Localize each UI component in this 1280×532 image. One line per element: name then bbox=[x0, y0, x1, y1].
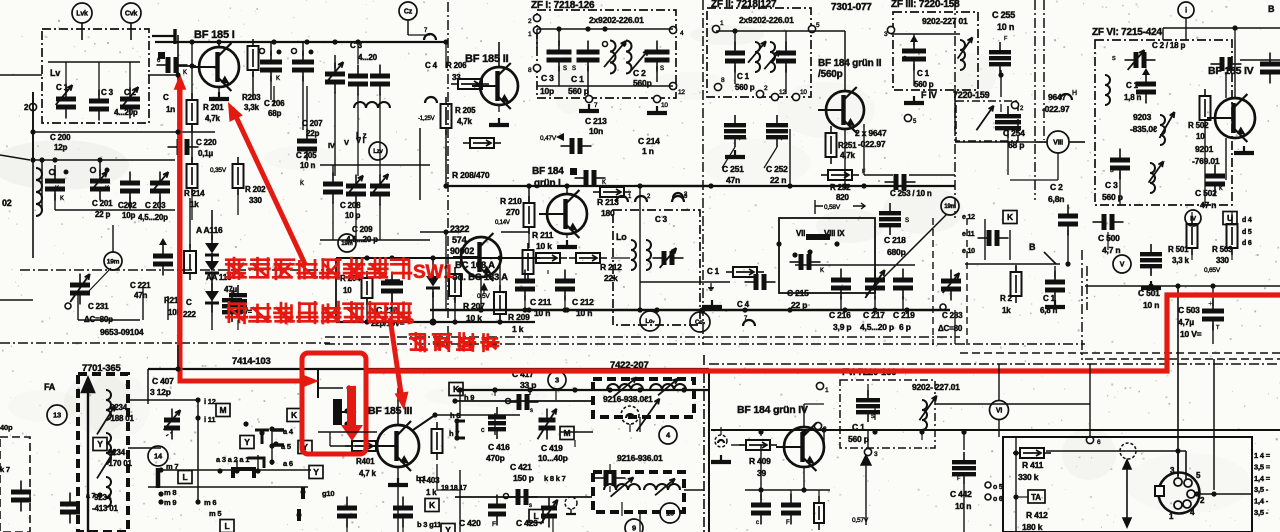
svg-text:R 210: R 210 bbox=[500, 196, 522, 206]
svg-text:C 209: C 209 bbox=[352, 225, 373, 234]
svg-text:C 4: C 4 bbox=[737, 300, 750, 309]
svg-text:9653-09104: 9653-09104 bbox=[100, 327, 144, 337]
svg-text:d 4: d 4 bbox=[1242, 217, 1252, 224]
svg-text:330: 330 bbox=[249, 196, 262, 205]
svg-text:-188 01: -188 01 bbox=[108, 414, 134, 423]
svg-text:Lzv: Lzv bbox=[373, 149, 383, 155]
svg-text:C 1: C 1 bbox=[1043, 294, 1056, 303]
svg-text:-835.0ℓ: -835.0ℓ bbox=[1130, 124, 1157, 134]
svg-text:4: 4 bbox=[680, 30, 684, 37]
svg-text:K: K bbox=[291, 410, 298, 420]
svg-text:c: c bbox=[756, 520, 759, 526]
svg-text:i 11: i 11 bbox=[204, 415, 215, 424]
svg-text:3,3 k: 3,3 k bbox=[1172, 256, 1190, 265]
svg-text:C 214: C 214 bbox=[638, 136, 660, 146]
svg-text:VI: VI bbox=[996, 408, 1002, 415]
svg-text:R 409: R 409 bbox=[749, 456, 771, 466]
svg-text:47n: 47n bbox=[726, 175, 740, 185]
svg-text:R 503: R 503 bbox=[1212, 245, 1233, 254]
svg-text:R 501: R 501 bbox=[1168, 245, 1189, 254]
svg-text:10 n: 10 n bbox=[300, 161, 316, 170]
svg-text:K: K bbox=[602, 180, 606, 186]
svg-text:10: 10 bbox=[661, 102, 668, 109]
svg-text:330: 330 bbox=[1216, 256, 1229, 265]
svg-text:9201: 9201 bbox=[1195, 144, 1214, 154]
svg-text:1k: 1k bbox=[1002, 306, 1011, 315]
svg-text:IV: IV bbox=[328, 141, 335, 150]
svg-text:12p: 12p bbox=[54, 143, 67, 152]
svg-text:a 3 a 2 a 1: a 3 a 2 a 1 bbox=[216, 455, 249, 464]
svg-text:5: 5 bbox=[816, 22, 820, 29]
svg-text:o 5: o 5 bbox=[993, 484, 1003, 491]
svg-text:C 1: C 1 bbox=[737, 72, 750, 81]
svg-text:1n: 1n bbox=[166, 105, 175, 114]
svg-text:M: M bbox=[564, 428, 571, 438]
svg-text:0,5V: 0,5V bbox=[477, 293, 490, 300]
svg-text:270: 270 bbox=[506, 207, 520, 217]
svg-text:02: 02 bbox=[2, 198, 12, 208]
svg-text:C 218: C 218 bbox=[884, 235, 906, 245]
svg-text:10...40p: 10...40p bbox=[538, 453, 568, 463]
svg-text:R401: R401 bbox=[356, 457, 375, 466]
svg-text:10 n: 10 n bbox=[1143, 300, 1159, 310]
svg-text:C 502: C 502 bbox=[1195, 188, 1217, 198]
svg-text:C 203: C 203 bbox=[145, 201, 166, 210]
svg-text:F IV: F IV bbox=[921, 90, 937, 100]
svg-text:C 212: C 212 bbox=[572, 297, 594, 307]
svg-text:VIII: VIII bbox=[1053, 140, 1063, 147]
svg-text:22 p: 22 p bbox=[95, 210, 111, 219]
svg-text:V: V bbox=[344, 138, 349, 147]
svg-text:C 211: C 211 bbox=[530, 297, 552, 307]
svg-text:560 p: 560 p bbox=[914, 80, 934, 89]
svg-text:Co₂: Co₂ bbox=[695, 320, 706, 326]
svg-text:s: s bbox=[530, 408, 533, 414]
svg-text:R 2: R 2 bbox=[1000, 294, 1013, 303]
svg-text:6 p: 6 p bbox=[899, 322, 911, 332]
svg-text:o 6: o 6 bbox=[993, 496, 1003, 503]
svg-text:i: i bbox=[1185, 8, 1187, 15]
svg-text:2 x 9647: 2 x 9647 bbox=[855, 128, 887, 138]
svg-text:7220-159: 7220-159 bbox=[953, 90, 990, 100]
svg-text:S: S bbox=[563, 66, 567, 72]
svg-text:BF 185 I: BF 185 I bbox=[194, 29, 235, 41]
svg-text:Y: Y bbox=[445, 525, 451, 532]
svg-text:0,58V: 0,58V bbox=[824, 204, 841, 211]
svg-text:K: K bbox=[1219, 186, 1223, 192]
svg-text:9202- 227.01: 9202- 227.01 bbox=[912, 382, 960, 392]
svg-text:d 6: d 6 bbox=[1242, 240, 1252, 247]
svg-text:0,47V: 0,47V bbox=[540, 135, 557, 142]
svg-text:R 208/470: R 208/470 bbox=[452, 170, 490, 180]
svg-text:C 219: C 219 bbox=[893, 310, 915, 320]
svg-text:C 255: C 255 bbox=[992, 10, 1015, 20]
svg-text:e 10: e 10 bbox=[962, 248, 975, 255]
svg-text:680p: 680p bbox=[887, 247, 906, 257]
svg-text:/560p: /560p bbox=[818, 69, 843, 80]
svg-text:Y: Y bbox=[313, 467, 319, 477]
svg-text:C 213: C 213 bbox=[585, 116, 607, 126]
svg-text:K: K bbox=[183, 70, 187, 76]
svg-text:C 221: C 221 bbox=[130, 281, 151, 290]
svg-text:10 p: 10 p bbox=[345, 211, 361, 220]
svg-text:M: M bbox=[220, 405, 227, 415]
svg-text:a 4: a 4 bbox=[283, 427, 294, 436]
svg-text:2: 2 bbox=[528, 18, 532, 25]
svg-text:C 208: C 208 bbox=[340, 201, 361, 210]
svg-text:R 411: R 411 bbox=[1022, 460, 1044, 470]
svg-text:560 p: 560 p bbox=[848, 434, 869, 444]
svg-text:R 412: R 412 bbox=[1026, 510, 1048, 520]
svg-text:Lv: Lv bbox=[50, 68, 60, 78]
svg-text:BF 184 grün II: BF 184 grün II bbox=[818, 58, 882, 69]
svg-text:10n: 10n bbox=[589, 126, 603, 136]
svg-text:C 416: C 416 bbox=[488, 442, 510, 452]
svg-text:68p: 68p bbox=[268, 109, 281, 118]
svg-text:FA: FA bbox=[44, 382, 56, 392]
svg-text:9234: 9234 bbox=[94, 493, 112, 502]
svg-text:22 n: 22 n bbox=[770, 175, 786, 185]
svg-text:1,4 =: 1,4 = bbox=[1254, 474, 1271, 483]
svg-text:Cz: Cz bbox=[404, 9, 413, 16]
svg-text:C 216: C 216 bbox=[829, 310, 851, 320]
svg-text:ΔC=80: ΔC=80 bbox=[938, 324, 963, 333]
svg-text:C 251: C 251 bbox=[722, 164, 744, 174]
svg-text:C 2: C 2 bbox=[633, 68, 646, 78]
svg-text:-413 01: -413 01 bbox=[92, 504, 118, 513]
svg-text:1: 1 bbox=[720, 20, 724, 27]
svg-text:1 n: 1 n bbox=[642, 146, 654, 156]
svg-text:10 n: 10 n bbox=[955, 501, 971, 511]
svg-text:C 500: C 500 bbox=[1098, 233, 1120, 243]
svg-text:m 5: m 5 bbox=[209, 509, 221, 518]
svg-text:C 503: C 503 bbox=[1178, 305, 1200, 315]
svg-text:ZF III: 7220-158: ZF III: 7220-158 bbox=[891, 0, 960, 10]
svg-text:0,1µ: 0,1µ bbox=[198, 149, 214, 158]
svg-text:Y: Y bbox=[244, 437, 250, 447]
svg-text:F: F bbox=[492, 521, 496, 528]
svg-text:3: 3 bbox=[874, 451, 878, 458]
svg-text:10 k: 10 k bbox=[536, 241, 552, 251]
svg-text:b 3 g11: b 3 g11 bbox=[417, 520, 441, 529]
svg-text:C 220: C 220 bbox=[196, 138, 217, 147]
svg-text:K: K bbox=[276, 76, 280, 82]
svg-text:222: 222 bbox=[183, 310, 196, 319]
svg-text:C 254: C 254 bbox=[1003, 128, 1025, 138]
svg-text:BF 184 grün IV: BF 184 grün IV bbox=[737, 404, 808, 416]
svg-text:330 k: 330 k bbox=[1018, 472, 1039, 482]
svg-text:C 200: C 200 bbox=[50, 133, 71, 142]
svg-text:L: L bbox=[183, 472, 188, 482]
svg-text:BF 184: BF 184 bbox=[532, 166, 564, 177]
svg-text:150 p: 150 p bbox=[513, 473, 534, 483]
svg-text:40p: 40p bbox=[0, 423, 13, 432]
svg-text:560 p: 560 p bbox=[568, 86, 589, 96]
svg-text:47 n: 47 n bbox=[1200, 200, 1216, 210]
svg-text:10: 10 bbox=[1196, 132, 1205, 141]
svg-text:2x9202-226.01: 2x9202-226.01 bbox=[739, 15, 794, 25]
svg-text:m 8: m 8 bbox=[164, 488, 176, 497]
svg-text:22 p: 22 p bbox=[791, 300, 807, 310]
svg-text:V I: V I bbox=[356, 136, 365, 145]
svg-text:7414-103: 7414-103 bbox=[232, 356, 271, 367]
svg-text:B: B bbox=[1029, 242, 1036, 252]
svg-text:R 212: R 212 bbox=[600, 262, 622, 272]
svg-text:e 12: e 12 bbox=[962, 214, 975, 221]
svg-text:0,14V: 0,14V bbox=[495, 220, 510, 226]
svg-text:IV: IV bbox=[1190, 215, 1197, 222]
svg-text:3,5 -: 3,5 - bbox=[1254, 508, 1269, 517]
svg-text:H: H bbox=[1072, 90, 1077, 97]
svg-text:R 202: R 202 bbox=[245, 185, 266, 194]
svg-text:9: 9 bbox=[632, 524, 636, 532]
svg-text:Cvk: Cvk bbox=[125, 11, 138, 18]
svg-text:2: 2 bbox=[764, 85, 768, 92]
svg-text:C 1: C 1 bbox=[571, 74, 584, 84]
svg-text:K: K bbox=[300, 181, 304, 187]
svg-text:C: C bbox=[186, 298, 192, 307]
svg-text:。: 。 bbox=[408, 309, 423, 326]
svg-text:C: C bbox=[163, 93, 169, 102]
svg-text:C 2 / 18 p: C 2 / 18 p bbox=[1152, 41, 1185, 50]
svg-text:R 502: R 502 bbox=[1188, 121, 1209, 130]
svg-text:C 442: C 442 bbox=[950, 489, 972, 499]
svg-text:ZF I: 7218-126: ZF I: 7218-126 bbox=[531, 0, 595, 11]
svg-text:22k: 22k bbox=[604, 273, 618, 283]
svg-text:R 209: R 209 bbox=[508, 312, 530, 322]
svg-text:S: S bbox=[903, 56, 907, 62]
svg-text:820: 820 bbox=[836, 193, 849, 202]
svg-text:0,35V: 0,35V bbox=[210, 167, 227, 174]
svg-text:-170 01: -170 01 bbox=[106, 459, 132, 468]
svg-text:K: K bbox=[60, 196, 64, 202]
svg-text:K: K bbox=[820, 268, 824, 274]
svg-text:C 3: C 3 bbox=[101, 88, 114, 97]
svg-text:e 11: e 11 bbox=[962, 231, 975, 238]
svg-text:BF 185 II: BF 185 II bbox=[465, 53, 509, 65]
svg-text:8: 8 bbox=[528, 67, 532, 74]
svg-text:S: S bbox=[572, 66, 576, 72]
svg-text:47µ: 47µ bbox=[224, 285, 237, 294]
svg-text:19 18 17: 19 18 17 bbox=[441, 485, 467, 492]
svg-text:9203: 9203 bbox=[1133, 112, 1152, 122]
svg-text:47n: 47n bbox=[134, 291, 147, 300]
svg-text:K: K bbox=[105, 186, 109, 192]
svg-text:SW1: SW1 bbox=[413, 262, 454, 283]
svg-text:a 6: a 6 bbox=[283, 459, 293, 468]
svg-text:ZF VI: 7215-424: ZF VI: 7215-424 bbox=[1092, 27, 1162, 38]
svg-text:R203: R203 bbox=[242, 93, 261, 102]
svg-text:3,3k: 3,3k bbox=[244, 103, 260, 112]
svg-text:4,5...20p: 4,5...20p bbox=[138, 213, 168, 222]
svg-text:10p: 10p bbox=[122, 211, 135, 220]
svg-text:S: S bbox=[1110, 168, 1114, 174]
svg-text:C 231: C 231 bbox=[88, 302, 109, 311]
svg-text:C 3: C 3 bbox=[1105, 180, 1118, 190]
svg-text:m 6: m 6 bbox=[204, 498, 216, 507]
svg-text:B: B bbox=[1268, 4, 1275, 14]
svg-text:Lvk: Lvk bbox=[76, 11, 88, 18]
svg-text:19m: 19m bbox=[944, 204, 955, 210]
svg-text:C 407: C 407 bbox=[152, 376, 174, 386]
svg-text:13: 13 bbox=[53, 411, 61, 420]
svg-text:R251: R251 bbox=[838, 141, 857, 150]
svg-text:4,7k: 4,7k bbox=[840, 151, 856, 160]
svg-text:R 206: R 206 bbox=[446, 61, 467, 70]
svg-text:m 9: m 9 bbox=[164, 498, 176, 507]
svg-text:8: 8 bbox=[721, 77, 725, 84]
svg-text:d 5: d 5 bbox=[1242, 229, 1252, 236]
svg-text:⏚: ⏚ bbox=[707, 283, 715, 292]
svg-text:6: 6 bbox=[1097, 439, 1101, 446]
svg-text:22p: 22p bbox=[306, 129, 319, 138]
svg-text:4,7 n: 4,7 n bbox=[1102, 245, 1120, 255]
svg-text:10p: 10p bbox=[540, 86, 554, 96]
svg-text:R 252: R 252 bbox=[830, 183, 851, 192]
svg-text:9647: 9647 bbox=[1048, 92, 1067, 102]
svg-text:3,9 p: 3,9 p bbox=[833, 322, 851, 332]
svg-text:C 419: C 419 bbox=[541, 443, 563, 453]
svg-text:3 12p: 3 12p bbox=[150, 387, 171, 397]
svg-text:h 8: h 8 bbox=[450, 411, 460, 420]
svg-text:1 k: 1 k bbox=[512, 324, 524, 334]
svg-text:Lo₇: Lo₇ bbox=[645, 319, 655, 325]
svg-text:C 233: C 233 bbox=[942, 311, 963, 320]
svg-text:180 k: 180 k bbox=[1022, 522, 1043, 532]
svg-text:10: 10 bbox=[800, 89, 807, 96]
svg-text:BF 185 III: BF 185 III bbox=[368, 405, 412, 417]
svg-text:-022.97: -022.97 bbox=[858, 139, 886, 149]
svg-text:-1,25V: -1,25V bbox=[418, 116, 435, 122]
svg-text:3: 3 bbox=[555, 376, 559, 385]
svg-text:560 p: 560 p bbox=[735, 83, 755, 92]
svg-text:V: V bbox=[1120, 262, 1125, 269]
svg-text:1,4 -: 1,4 - bbox=[1254, 497, 1269, 506]
svg-text:A A116: A A116 bbox=[196, 225, 223, 235]
svg-text:C 3: C 3 bbox=[655, 215, 668, 224]
svg-text:K: K bbox=[1007, 212, 1014, 222]
svg-text:3: 3 bbox=[884, 31, 888, 38]
svg-text:k 8 k 7: k 8 k 7 bbox=[544, 474, 566, 483]
svg-text:4,7µ: 4,7µ bbox=[1178, 317, 1194, 327]
svg-text:ZF II: 7218|127: ZF II: 7218|127 bbox=[711, 0, 777, 10]
svg-text:C 423: C 423 bbox=[516, 518, 538, 528]
svg-text:R 211: R 211 bbox=[532, 230, 554, 240]
svg-text:S: S bbox=[660, 66, 664, 72]
svg-text:k 7: k 7 bbox=[0, 465, 10, 474]
svg-text:1 k: 1 k bbox=[426, 488, 437, 497]
svg-text:12: 12 bbox=[678, 89, 685, 96]
svg-text:S: S bbox=[905, 218, 909, 224]
svg-text:19m: 19m bbox=[107, 258, 120, 265]
svg-text:10 V=: 10 V= bbox=[1180, 329, 1202, 339]
svg-text:10 n: 10 n bbox=[997, 22, 1014, 32]
svg-text:+: + bbox=[1208, 299, 1213, 308]
svg-text:VII: VII bbox=[796, 229, 805, 238]
svg-text:TA: TA bbox=[1031, 493, 1041, 502]
svg-text:9202-227 01: 9202-227 01 bbox=[922, 16, 968, 26]
svg-text:1 4 =: 1 4 = bbox=[1254, 451, 1271, 460]
svg-text:6,8n: 6,8n bbox=[1048, 194, 1064, 204]
svg-text:grün I: grün I bbox=[534, 178, 561, 189]
svg-text:C 252: C 252 bbox=[766, 164, 788, 174]
svg-text:14: 14 bbox=[154, 452, 163, 461]
svg-text:10: 10 bbox=[666, 509, 674, 518]
svg-text:S: S bbox=[1112, 56, 1116, 62]
svg-text:39: 39 bbox=[757, 468, 767, 478]
svg-text:C 4: C 4 bbox=[425, 61, 438, 70]
svg-text:7301-077: 7301-077 bbox=[831, 2, 872, 13]
svg-text:R 201: R 201 bbox=[203, 103, 224, 112]
svg-text:4...20: 4...20 bbox=[358, 53, 378, 62]
svg-text:Lo: Lo bbox=[616, 232, 627, 242]
svg-text:574: 574 bbox=[452, 235, 467, 245]
svg-text:4,5...20 p: 4,5...20 p bbox=[860, 322, 894, 332]
svg-text:i 12: i 12 bbox=[204, 397, 216, 406]
svg-text:1: 1 bbox=[528, 31, 532, 38]
svg-text:C 1: C 1 bbox=[917, 69, 930, 78]
svg-text:R 205: R 205 bbox=[455, 106, 476, 115]
svg-text:a 7: a 7 bbox=[86, 493, 95, 500]
svg-text:9216-936.01: 9216-936.01 bbox=[617, 453, 663, 463]
svg-text:F: F bbox=[786, 520, 790, 526]
svg-text:1: 1 bbox=[825, 387, 829, 394]
svg-text:C 2: C 2 bbox=[1050, 182, 1063, 192]
svg-text:s: s bbox=[529, 503, 532, 509]
svg-text:C 1: C 1 bbox=[707, 267, 720, 276]
svg-text:R 214: R 214 bbox=[184, 189, 205, 198]
svg-text:C 207: C 207 bbox=[302, 119, 323, 128]
svg-text:C 3: C 3 bbox=[541, 73, 554, 83]
svg-text:K: K bbox=[429, 500, 436, 510]
svg-text:0,65V: 0,65V bbox=[1204, 267, 1221, 274]
svg-text:7: 7 bbox=[594, 102, 598, 109]
svg-text:33: 33 bbox=[452, 73, 461, 82]
svg-text:7701-365: 7701-365 bbox=[82, 363, 121, 374]
svg-text:19m: 19m bbox=[341, 241, 352, 247]
svg-text:g10: g10 bbox=[322, 489, 334, 498]
svg-text:3,5 -: 3,5 - bbox=[1254, 485, 1269, 494]
svg-text:K: K bbox=[55, 186, 59, 192]
svg-text:C 253 / 10 n: C 253 / 10 n bbox=[890, 189, 932, 198]
svg-text:2x9202-226.01: 2x9202-226.01 bbox=[589, 15, 644, 25]
svg-text:C 420: C 420 bbox=[459, 518, 481, 528]
svg-text:4,7k: 4,7k bbox=[457, 117, 473, 126]
svg-text:C 421: C 421 bbox=[510, 462, 532, 472]
svg-text:C202: C202 bbox=[118, 201, 137, 210]
svg-text:4,7k: 4,7k bbox=[205, 114, 221, 123]
svg-text:10: 10 bbox=[343, 286, 352, 295]
svg-text:-022.97: -022.97 bbox=[1042, 104, 1070, 114]
svg-text:470p: 470p bbox=[486, 453, 505, 463]
svg-text:4,7 k: 4,7 k bbox=[359, 469, 377, 478]
svg-text:9216-938.0ℓ1: 9216-938.0ℓ1 bbox=[603, 394, 653, 404]
svg-text:C 201: C 201 bbox=[92, 199, 113, 208]
svg-text:L: L bbox=[225, 521, 230, 531]
svg-text:Y: Y bbox=[97, 439, 103, 449]
svg-text:3,5 =: 3,5 = bbox=[1254, 462, 1271, 471]
